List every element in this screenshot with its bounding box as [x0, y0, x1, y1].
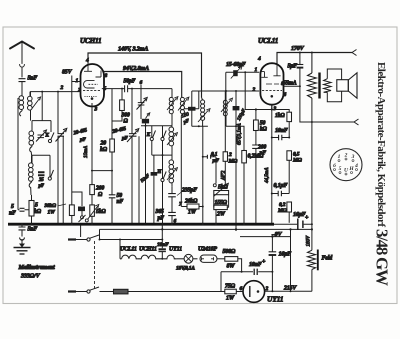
- svg-text:UCL11: UCL11: [120, 247, 137, 253]
- resistor 155 Ohm 2W: [214, 195, 229, 225]
- osc padder trimmer cap: [137, 89, 148, 119]
- svg-text:UY11: UY11: [267, 295, 283, 304]
- capacitor 16uF (bias filter): [269, 237, 277, 292]
- capacitor 5nF antenna: [19, 79, 26, 96]
- svg-text:0,1μF: 0,1μF: [274, 183, 288, 189]
- svg-text:5kΩ: 5kΩ: [96, 209, 106, 215]
- wire switch row 2: [152, 154, 172, 156]
- svg-text:365: 365: [155, 209, 164, 215]
- svg-text:16μF: 16μF: [293, 212, 306, 218]
- heater return line with 10nF: [221, 271, 272, 273]
- svg-text:5: 5: [35, 203, 38, 209]
- coil L4 LW band: [29, 163, 34, 168]
- speaker plug top: [352, 50, 357, 56]
- svg-text:8W: 8W: [227, 264, 236, 270]
- svg-text:5: 5: [11, 204, 14, 210]
- svg-text:170V: 170V: [291, 45, 305, 52]
- svg-text:UCL11: UCL11: [258, 37, 278, 45]
- capacitor 150pF (IFT2 secondary): [233, 91, 240, 126]
- output transformer primary: [308, 52, 317, 123]
- svg-text:H: H: [348, 166, 354, 172]
- capacitor 10nF (hum): [254, 269, 257, 275]
- capacitor 5nF (chassis to ground): [19, 224, 26, 236]
- barretter U2410P: [200, 255, 225, 262]
- volume potentiometer 5kOhm: [213, 157, 228, 197]
- svg-text:5: 5: [339, 166, 342, 172]
- dial lamp 18V 0.1A: [177, 254, 198, 263]
- svg-text:2: 2: [252, 87, 256, 93]
- chassis ground bus: [8, 223, 274, 226]
- svg-text:15-60pF: 15-60pF: [226, 62, 246, 68]
- wire cathode 44.5mA: [271, 104, 273, 224]
- UCL11 electrodes: [260, 64, 282, 98]
- svg-text:65V,0,1mA: 65V,0,1mA: [238, 122, 243, 145]
- rectifier tube UY11: [243, 281, 265, 303]
- capacitor 150pF (IFT1): [184, 91, 199, 111]
- svg-text:4: 4: [354, 163, 358, 169]
- svg-text:20: 20: [100, 141, 107, 147]
- trimmer 15-60pF: [226, 66, 259, 78]
- thin chassis line to 16uF: [274, 223, 312, 225]
- capacitor 235pF padder: [168, 186, 176, 212]
- svg-text:5nF: 5nF: [28, 227, 38, 233]
- svg-text:MΩ: MΩ: [228, 159, 239, 165]
- svg-text:μF: μF: [212, 158, 220, 164]
- svg-text:25: 25: [38, 178, 44, 183]
- svg-text:0,1: 0,1: [211, 152, 218, 158]
- resistor 50kOhm: [254, 110, 259, 145]
- svg-text:2W: 2W: [216, 212, 226, 218]
- hook below L4: [29, 182, 31, 195]
- resistor 300 Ohm: [112, 88, 124, 121]
- gang tuning cap section 1 (20-495pF): [56, 92, 67, 225]
- svg-text:nF: nF: [117, 199, 124, 205]
- svg-text:140V, 3.2mA: 140V, 3.2mA: [118, 46, 148, 53]
- heater UCL11: [120, 255, 138, 259]
- svg-text:55mA: 55mA: [283, 81, 297, 87]
- resistor 0.2MOhm (AVC): [242, 151, 247, 225]
- svg-text:1kΩ: 1kΩ: [275, 113, 285, 119]
- transformer core: [318, 73, 320, 99]
- mains switch pole 1: [68, 226, 162, 242]
- heater chain wire: [119, 240, 121, 259]
- svg-text:pF: pF: [157, 216, 165, 222]
- speaker plug bottom: [354, 119, 359, 125]
- resistor 200 Ohm: [90, 171, 95, 205]
- capacitor 5nF (to meter line): [18, 208, 29, 211]
- svg-text:6: 6: [240, 286, 243, 292]
- speaker voice coil: [337, 80, 349, 92]
- fusible resistor: [114, 289, 225, 294]
- UCH11 electrodes: [83, 64, 101, 100]
- svg-text:6: 6: [284, 92, 287, 98]
- svg-text:UCH11: UCH11: [80, 37, 101, 45]
- svg-text:2: 2: [344, 153, 348, 159]
- wire IFT2 grid bridge: [191, 91, 193, 126]
- svg-text:5μF: 5μF: [288, 64, 298, 70]
- trimmer cap MW: [36, 130, 47, 142]
- svg-text:5kΩ: 5kΩ: [218, 185, 228, 191]
- wire B+ vertical to field coil: [311, 122, 313, 250]
- capacitor 16uF (chassis): [298, 219, 303, 231]
- resistor 20kOhm 1W (osc feed): [172, 197, 204, 209]
- oscillator coil (upper): [167, 126, 177, 147]
- 170V rail: [277, 53, 352, 64]
- tube socket pinout: [330, 149, 362, 181]
- capacitor 5uF: [297, 52, 304, 87]
- svg-text:180V: 180V: [307, 235, 312, 247]
- svg-text:20kΩ: 20kΩ: [184, 199, 198, 205]
- svg-text:pF: pF: [121, 136, 128, 142]
- svg-text:UY11: UY11: [169, 247, 182, 253]
- svg-text:215V: 215V: [283, 286, 297, 292]
- capacitor 50pF: [122, 85, 172, 92]
- capacitor 10nF (tone): [271, 135, 290, 140]
- resistor 5kOhm (antenna): [29, 195, 34, 224]
- capacitor 200pF: [252, 145, 259, 224]
- svg-text:50pF: 50pF: [124, 79, 136, 85]
- speaker cone: [348, 73, 357, 98]
- svg-text:200: 200: [95, 186, 104, 192]
- input tuned coil L2 with trimmer: [28, 92, 41, 121]
- switch K1: [45, 121, 55, 143]
- svg-text:K: K: [146, 132, 151, 138]
- wire LW cell top: [32, 155, 50, 170]
- svg-text:85V: 85V: [62, 70, 73, 76]
- grid wire UCL11 pin2: [192, 90, 259, 92]
- svg-text:4: 4: [257, 56, 261, 62]
- wire pin1 corner down to grid line: [225, 72, 227, 91]
- resistor 30kOhm 1W (85V feed): [69, 76, 74, 225]
- coil L3 MW band: [29, 131, 34, 136]
- svg-text:UCH11: UCH11: [139, 247, 157, 253]
- wire antenna coil to ground bus: [17, 98, 19, 210]
- wire left leg to mains line: [220, 272, 222, 292]
- svg-text:kΩ: kΩ: [34, 209, 42, 215]
- wire osc cathode jog: [92, 170, 112, 172]
- resistor 1kOhm: [272, 104, 292, 138]
- wire -9V corner down: [290, 229, 292, 291]
- svg-text:10nF: 10nF: [249, 262, 262, 268]
- IF transformer 1 right coil: [178, 97, 189, 206]
- svg-text:94V,2.8mA: 94V,2.8mA: [123, 65, 149, 72]
- svg-text:3: 3: [94, 107, 98, 113]
- mains switch pole 2: [68, 287, 114, 293]
- svg-text:pF: pF: [259, 151, 267, 157]
- cap fixed black (osc tracking): [142, 113, 150, 126]
- heater UCH11: [138, 255, 163, 259]
- wire pin3 anode down: [91, 103, 93, 171]
- antenna coil L1: [19, 96, 24, 117]
- capacitor 10nF (heater): [159, 224, 166, 260]
- svg-text:44,5mA: 44,5mA: [265, 167, 270, 183]
- svg-text:3: 3: [351, 154, 355, 160]
- capacitor 50nF: [109, 171, 116, 225]
- 94V screen rail: [104, 72, 182, 98]
- wire grid bias x236 down: [235, 126, 237, 231]
- switch K4: [161, 126, 166, 141]
- svg-text:10nF: 10nF: [275, 128, 288, 134]
- svg-text:Meßinstrument: Meßinstrument: [18, 265, 56, 271]
- capacitor 365pF: [168, 212, 176, 224]
- switch K2: [48, 170, 53, 180]
- 140V anode rail: [88, 53, 202, 98]
- tube UCL11 envelope: [260, 63, 283, 105]
- hook wire below L3: [30, 147, 32, 156]
- field coil Feld: [308, 250, 318, 292]
- svg-text:Elektro-Apparate-Fabrik, Köppe: Elektro-Apparate-Fabrik, Köppelsdorf: [375, 62, 387, 227]
- wire MW cell top: [32, 121, 51, 132]
- resistor 20kOhm (osc grid leak): [110, 121, 115, 171]
- svg-text:2: 2: [228, 152, 232, 158]
- junction dots on bus: [21, 223, 245, 225]
- svg-text:155Ω: 155Ω: [215, 200, 228, 206]
- svg-text:1: 1: [255, 67, 258, 73]
- svg-text:pF: pF: [79, 137, 86, 143]
- svg-text:18V,0,1A: 18V,0,1A: [176, 266, 195, 272]
- resistor 0.2MOhm (lower): [287, 202, 292, 223]
- svg-text:kΩ: kΩ: [260, 127, 268, 133]
- capacitor 25pF: [38, 172, 45, 175]
- svg-text:10nF: 10nF: [157, 242, 169, 248]
- capacitor 0.1uF (AF coupling): [202, 155, 216, 159]
- svg-text:AF'2: AF'2: [222, 170, 227, 181]
- output transformer secondary: [324, 69, 342, 102]
- gang tuning cap section 2 (oscillator 20-495pF): [127, 89, 139, 225]
- svg-text:1W: 1W: [226, 296, 235, 302]
- IF transformer 2 secondary coil: [221, 91, 233, 126]
- svg-text:6: 6: [140, 80, 143, 86]
- wire node 2 vertical x42: [41, 92, 43, 121]
- switch H1: [156, 141, 166, 225]
- svg-text:MΩ: MΩ: [292, 158, 303, 164]
- svg-text:2: 2: [60, 85, 64, 91]
- wire pin2 grid line: [30, 91, 81, 93]
- -9V bias line: [240, 236, 291, 238]
- resistor 2MOhm (grid leak): [223, 91, 227, 185]
- svg-text:U2410P: U2410P: [198, 247, 217, 253]
- svg-text:16μF: 16μF: [279, 252, 292, 258]
- potentiometer 5kOhm (cathode): [85, 205, 99, 225]
- svg-text:1: 1: [338, 154, 341, 160]
- switch K3: [146, 126, 156, 141]
- switch link (dashed): [94, 241, 96, 289]
- IF transformer 2 primary coil: [192, 98, 210, 225]
- svg-text:6: 6: [333, 163, 336, 169]
- capacitor 0.1uF (output): [271, 191, 289, 196]
- anode line 55mA: [283, 85, 300, 87]
- wire IFT2 bottom to 65V line: [226, 126, 244, 150]
- antenna: [10, 42, 34, 78]
- svg-text:8: 8: [105, 73, 108, 79]
- svg-text:Feld: Feld: [322, 256, 334, 262]
- resistor 500 Ohm 8W: [225, 257, 242, 272]
- cap 0.1uF black (85V decoupling) with switch: [72, 192, 86, 222]
- svg-text:3/48 GW: 3/48 GW: [373, 229, 392, 286]
- svg-text:kΩ: kΩ: [100, 147, 108, 153]
- wire pickup line to 50k/1k: [245, 72, 272, 109]
- heater UY11: [162, 255, 176, 259]
- wire anode to transformer bottom and ext plug: [300, 86, 354, 122]
- wire switch row 1: [141, 125, 172, 127]
- wire 215V cathode line: [265, 290, 312, 292]
- svg-text:5nF: 5nF: [28, 76, 38, 82]
- oscillator coil (lower): [167, 147, 177, 186]
- resistor 75 Ohm 1W: [225, 289, 243, 294]
- svg-text:2: 2: [77, 88, 81, 94]
- svg-text:500Ω: 500Ω: [223, 249, 236, 255]
- svg-text:nF: nF: [9, 211, 16, 217]
- wire pin5 oscillator line: [102, 88, 122, 90]
- IF transformer 1 left coil: [167, 89, 178, 126]
- resistor 0.5MOhm: [287, 151, 292, 194]
- cap fixed black (LW padder): [140, 168, 157, 224]
- svg-text:MΩ: MΩ: [277, 208, 288, 214]
- svg-text:1W: 1W: [188, 210, 197, 216]
- svg-text:pF: pF: [38, 184, 45, 189]
- svg-text:235pF: 235pF: [181, 188, 197, 194]
- svg-text:75Ω: 75Ω: [225, 284, 236, 290]
- svg-text:30kΩ: 30kΩ: [44, 203, 56, 209]
- node 6 stub: [140, 85, 142, 89]
- wire pin1 85V node: [72, 81, 81, 83]
- svg-text:10mA: 10mA: [83, 145, 89, 158]
- svg-text:333Ω/V: 333Ω/V: [20, 273, 41, 280]
- tube UCH11 envelope: [81, 64, 105, 106]
- ground symbol: [14, 238, 31, 255]
- mains line (upper): [100, 228, 312, 230]
